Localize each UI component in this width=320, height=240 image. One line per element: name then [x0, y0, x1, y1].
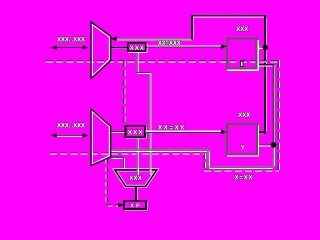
wire: condensate U-line from T2 exhaust to J2	[111, 145, 275, 168]
svg-text:XX=XXX: XX=XXX	[158, 40, 182, 47]
shaft coupling dashed right vertical	[278, 61, 279, 170]
shaft coupling dashed bottom horizontal	[204, 170, 279, 171]
svg-text:XXX: XXX	[236, 27, 248, 33]
turbine T1	[91, 22, 111, 79]
wire: T2 exhaust to SB2	[111, 131, 125, 132]
wire: B1 lower-right out	[257, 65, 276, 66]
condenser feed stubs into condenser	[137, 169, 151, 175]
svg-text:XX=XX: XX=XX	[158, 124, 185, 131]
wire: B2 right to junction J2	[257, 145, 271, 146]
wire: T2 bottom corner to condenser	[111, 157, 124, 170]
wire: SB1 drop bend horizontal	[137, 72, 151, 73]
wire: SB1 bottom drop	[137, 51, 138, 73]
boiler box B1	[227, 39, 258, 71]
T1 dimension arrow	[51, 45, 88, 49]
condenser	[115, 170, 157, 187]
arrowhead into pump box	[118, 203, 123, 207]
arrowhead into B2	[221, 130, 227, 135]
shaft coupling dashed left vertical	[204, 153, 205, 170]
svg-text:XXX...XXX: XXX...XXX	[57, 36, 86, 43]
svg-text:XXX...XXX: XXX...XXX	[57, 122, 86, 129]
svg-text:Y: Y	[241, 146, 245, 152]
junction dot J1	[263, 45, 268, 50]
pump box P	[124, 201, 147, 210]
small box SB2	[125, 126, 146, 138]
wire: steam loop top (reheat return)	[192, 16, 266, 134]
T2 dimension arrow	[51, 133, 88, 137]
small box SB1	[128, 43, 147, 53]
svg-text:XXX: XXX	[130, 45, 145, 52]
dashed drop between small boxes	[124, 61, 125, 126]
drain dashed line to pump	[106, 160, 119, 207]
condensate stem	[136, 186, 137, 200]
svg-text:XP: XP	[130, 203, 140, 209]
wire: T1 exhaust to SB1	[111, 48, 128, 49]
wire: line A turbine T1 top inlet	[117, 39, 192, 40]
wire: B1 right to junction J1	[257, 47, 264, 48]
shaft centerline T1 (dashed)	[46, 61, 279, 62]
wire: SB2 bottom drop to condenser	[137, 137, 138, 175]
svg-text:XXX: XXX	[129, 176, 142, 182]
arrowhead into B1	[221, 44, 227, 49]
shaft centerline T2 (dashed)	[50, 153, 204, 154]
svg-text:XXX: XXX	[128, 130, 144, 137]
wire: SB2 to B2	[145, 131, 221, 132]
svg-text:X=XX: X=XX	[235, 175, 254, 182]
wire: right downcomer to J2	[273, 65, 274, 145]
junction dot J2	[271, 142, 277, 148]
wire: long drop from SB1 bend to condenser	[150, 72, 151, 174]
arrowhead into T1 top	[111, 36, 117, 41]
wire: SB1 to boiler B1	[146, 46, 221, 47]
boiler box B2	[227, 124, 259, 156]
svg-text:XXX: XXX	[238, 113, 250, 119]
turbine T2	[91, 109, 111, 166]
B1 internal I glyph	[241, 61, 243, 66]
